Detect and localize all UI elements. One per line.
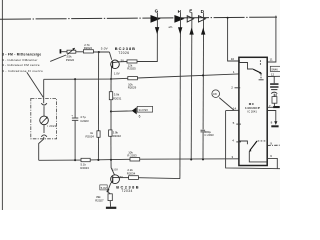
- wire emitter node to R2029: [111, 77, 128, 80]
- wire P2022 to R2022: [76, 51, 84, 53]
- pin 3 label: [232, 155, 234, 159]
- junction emitter/R2027: [107, 190, 109, 192]
- resistor R2032: [109, 130, 122, 138]
- flow arrow on D wire (up): [201, 28, 205, 35]
- collector voltage label 1.0V: [112, 168, 118, 172]
- resistor R2031: [109, 92, 121, 101]
- destination label box Im FSV: [137, 106, 152, 112]
- wire pin14 drop to under-IC rail: [226, 111, 280, 169]
- svg-text:R2034: R2034: [127, 171, 136, 175]
- legend pointer line to trimmer P2022: [50, 55, 66, 61]
- capacitor C2023 (electrolytic): [71, 113, 89, 123]
- svg-text:R2022: R2022: [84, 46, 93, 50]
- svg-text:3 - Indicazione FI mezzo: 3 - Indicazione FI mezzo: [2, 69, 43, 73]
- boxed voltage label 5.0V: [100, 185, 107, 190]
- pin 7 label: [269, 104, 271, 108]
- IC internal switch 2 output wire: [249, 152, 267, 162]
- wire pin12 tap down: [273, 76, 275, 83]
- IC internal switch 2 arm: [249, 141, 257, 152]
- IC internal switch 1 control dashes: [259, 60, 264, 80]
- svg-text:R2031: R2031: [113, 97, 122, 101]
- transistor T2026 BC238B: [111, 46, 136, 69]
- wire D vertical (lower): [202, 132, 204, 159]
- wire resistor to ground bar: [273, 103, 275, 106]
- wire IC pin 14: [226, 109, 239, 111]
- pin 13 label: [274, 94, 277, 97]
- capacitor at pin 13 (upper): [270, 83, 278, 87]
- node H label: [178, 9, 182, 14]
- flow arrow on E wire (up): [189, 28, 193, 35]
- svg-text:T2034: T2034: [121, 189, 132, 193]
- terminal (input) at start of P2022 wire: [60, 49, 62, 53]
- junction FSV tap: [110, 110, 112, 112]
- IC internal switch 1 input wire: [240, 63, 254, 70]
- meter instrument I2021: [40, 116, 57, 128]
- emitter arrowhead T2034: [108, 189, 110, 192]
- emitter voltage label 1.0V: [114, 71, 120, 75]
- wire R2034 to H elbow: [138, 177, 180, 180]
- svg-text:C 2033: C 2033: [204, 133, 214, 137]
- svg-text:SN46: SN46: [271, 67, 278, 71]
- wire R2031 to FSV node: [110, 100, 112, 130]
- pin number 6 of FSV arrow: [139, 114, 141, 118]
- IC internal switch 1 arm: [253, 69, 262, 74]
- bottom rail wire (left of R2023): [39, 159, 81, 161]
- svg-text:14: 14: [233, 107, 237, 111]
- pin 6 label: [270, 154, 272, 158]
- boundary arrow H (filled): [174, 15, 184, 23]
- pin 1 label: [233, 70, 235, 74]
- wire R2024 branch lower: [97, 137, 99, 160]
- legend pointer line to meter: [27, 72, 43, 97]
- trimmer P2022: [66, 48, 76, 62]
- arrow pin 8 to ground: [274, 121, 277, 125]
- svg-text:5.0V: 5.0V: [101, 186, 107, 190]
- svg-text:14016CP: 14016CP: [245, 106, 260, 110]
- transistor T2034 BC238B: [111, 175, 141, 193]
- IC 2041 body MC14016CP: [239, 57, 267, 165]
- wire IC pin 6 to under-IC rail: [267, 158, 277, 168]
- junction base node / R2024: [98, 51, 100, 53]
- junction main divider on rail: [110, 159, 112, 161]
- wire terminal to P2022: [61, 51, 67, 53]
- wire caps to resistor: [273, 94, 275, 97]
- pin 2 label and stub: [231, 86, 240, 90]
- wire R2027 to ground: [109, 201, 111, 207]
- wire junction to R2027: [108, 191, 111, 193]
- capacitor at pin 13 (lower, polarized): [271, 89, 277, 93]
- resistor at pin 13: [272, 97, 277, 104]
- svg-text:3 - FM - Mittenanzeige: 3 - FM - Mittenanzeige: [2, 52, 41, 56]
- wire meter drop: [43, 79, 45, 103]
- connector hook top: [41, 103, 47, 105]
- wire from chain line to IC pin 11: [267, 16, 276, 62]
- svg-text:3 - Indicateur FM centre: 3 - Indicateur FM centre: [2, 63, 40, 67]
- boundary arrow G (filled): [151, 15, 161, 23]
- collector label 5V: [120, 175, 124, 179]
- svg-text:R2025: R2025: [127, 67, 136, 71]
- pin 11 label: [270, 57, 273, 61]
- svg-text:R2023: R2023: [80, 166, 89, 170]
- svg-text:IC 2041: IC 2041: [248, 110, 258, 114]
- svg-text:+: +: [71, 113, 73, 117]
- node G label: [155, 9, 159, 14]
- boundary arrow E (open): [187, 16, 193, 22]
- wire base diagonal into T2026: [109, 52, 111, 60]
- IC internal switch 2 input wire: [240, 141, 248, 144]
- IC internal switch 2 control dashes: [258, 140, 267, 142]
- flow arrow on H wire (down): [178, 27, 182, 34]
- wire IC pin 8 to ground drop: [267, 111, 275, 122]
- wire T2034 collector feed: [111, 160, 114, 175]
- wire T2034 collector to R2034: [119, 177, 128, 179]
- ground bar: [106, 207, 116, 209]
- svg-text:G: G: [155, 9, 159, 14]
- svg-text:T2026: T2026: [118, 51, 129, 55]
- node voltage label 5.0V: [101, 46, 109, 50]
- oscillogram marker C8: [212, 90, 220, 98]
- resistor R2022: [83, 43, 93, 53]
- svg-text:C2023: C2023: [80, 119, 89, 123]
- pin 14 label: [233, 107, 237, 111]
- wire IC pin 12 to right edge: [267, 75, 280, 77]
- svg-text:R2032: R2032: [113, 134, 122, 138]
- svg-text:R 2033: R 2033: [127, 154, 137, 158]
- svg-text:C8: C8: [213, 92, 217, 96]
- wire emitter node to meter (left): [44, 78, 111, 80]
- bottom rail wire (R2033 to IC pin 3): [140, 158, 239, 160]
- wire C2023 branch lower: [74, 121, 76, 161]
- wire R2022 to base node: [93, 51, 109, 53]
- svg-text:11: 11: [270, 57, 273, 61]
- wire T2026 collector to R2025: [119, 61, 127, 63]
- collector voltage label 5V: [121, 59, 125, 63]
- node E label: [189, 9, 192, 14]
- wire E vertical: [190, 13, 193, 160]
- svg-text:Im FSV: Im FSV: [139, 108, 149, 112]
- wire hook to meter: [43, 106, 45, 116]
- pin 5 label and stub: [233, 121, 241, 125]
- ground bar pin 8: [271, 125, 278, 127]
- wire R2024 branch upper: [98, 52, 100, 131]
- wire T2034 emitter diagonal: [108, 184, 111, 192]
- pin 10 label: [231, 57, 235, 61]
- junction emitter node: [110, 78, 112, 80]
- svg-text:R2029: R2029: [128, 85, 137, 89]
- boundary arrow D (open): [199, 16, 206, 22]
- left page border line: [1, 0, 3, 210]
- wire T2026 emitter down: [110, 68, 112, 79]
- junction D line on pin1 wire: [202, 74, 204, 76]
- wire meter to bottom hook: [43, 125, 45, 133]
- svg-text:1.0V: 1.0V: [114, 71, 120, 75]
- svg-text:10: 10: [231, 57, 235, 61]
- pin 4 label and stub: [232, 138, 241, 142]
- svg-text:I 2021: I 2021: [47, 124, 56, 128]
- resistor R2027: [95, 194, 112, 203]
- indicator legend text block: [2, 52, 43, 73]
- wire FSV tap to arrow: [111, 110, 132, 113]
- pin 9 label: [270, 142, 272, 146]
- resistor R2023: [80, 158, 90, 170]
- wire R2025 to G riser: [137, 61, 157, 63]
- resistor R2024: [86, 131, 101, 139]
- junction E line on rail: [190, 158, 192, 160]
- wire from chain line to IC pin 10: [228, 18, 240, 61]
- wire H vertical: [179, 13, 182, 179]
- capacitor C2033: [201, 130, 214, 137]
- wire R2032 to bottom rail: [110, 136, 112, 160]
- bottom rail wire (R2023 to R2033): [90, 158, 130, 161]
- flow arrow on G wire (down): [155, 27, 159, 34]
- node D label: [201, 9, 205, 14]
- svg-text:5V: 5V: [120, 175, 124, 179]
- board reference box SN46: [270, 66, 280, 71]
- junction D line on rail: [202, 158, 204, 160]
- pointer C8 to pin 14: [219, 98, 233, 110]
- resistor R2033: [127, 150, 139, 161]
- resistor R2025: [127, 60, 137, 71]
- wire meter return with jog: [39, 137, 44, 160]
- connector hook bottom: [41, 135, 47, 137]
- junction chain/pin10 riser: [227, 17, 229, 19]
- junction C2023 tap: [74, 78, 76, 80]
- chain line stub at pin 9: [267, 144, 280, 146]
- wire D vertical (upper, to capacitor C2033): [202, 13, 205, 130]
- junction C2023 on rail: [74, 159, 76, 161]
- scan speckle: [169, 25, 173, 29]
- pin 12 label: [271, 73, 275, 77]
- resistor R2029: [128, 77, 138, 90]
- module boundary chain line (top): [0, 17, 277, 19]
- svg-text:1.0V: 1.0V: [112, 168, 118, 172]
- junction R2024 on rail: [97, 159, 99, 161]
- pin 8 label: [271, 121, 273, 125]
- connection arrow 6 to FSV board: [132, 107, 137, 114]
- wire C2023 branch upper: [74, 79, 76, 117]
- svg-text:5.0V: 5.0V: [101, 46, 109, 50]
- wire G vertical: [137, 13, 157, 62]
- wire R2029 to IC pin 1: [137, 74, 239, 78]
- svg-text:P2022: P2022: [66, 58, 75, 62]
- wire emitter node down to R2031: [110, 79, 112, 92]
- svg-text:12: 12: [271, 73, 275, 77]
- resistor R2034: [127, 168, 139, 179]
- svg-text:R2024: R2024: [86, 134, 95, 138]
- ground bar pin 7: [273, 106, 280, 108]
- svg-text:R2027: R2027: [95, 199, 104, 203]
- wire IC pin 7 to ground bar: [267, 106, 275, 108]
- dashed meter module box: [31, 98, 57, 138]
- svg-text:3 - Indicator FMcarrier: 3 - Indicator FMcarrier: [2, 58, 38, 62]
- svg-text:6: 6: [139, 114, 141, 118]
